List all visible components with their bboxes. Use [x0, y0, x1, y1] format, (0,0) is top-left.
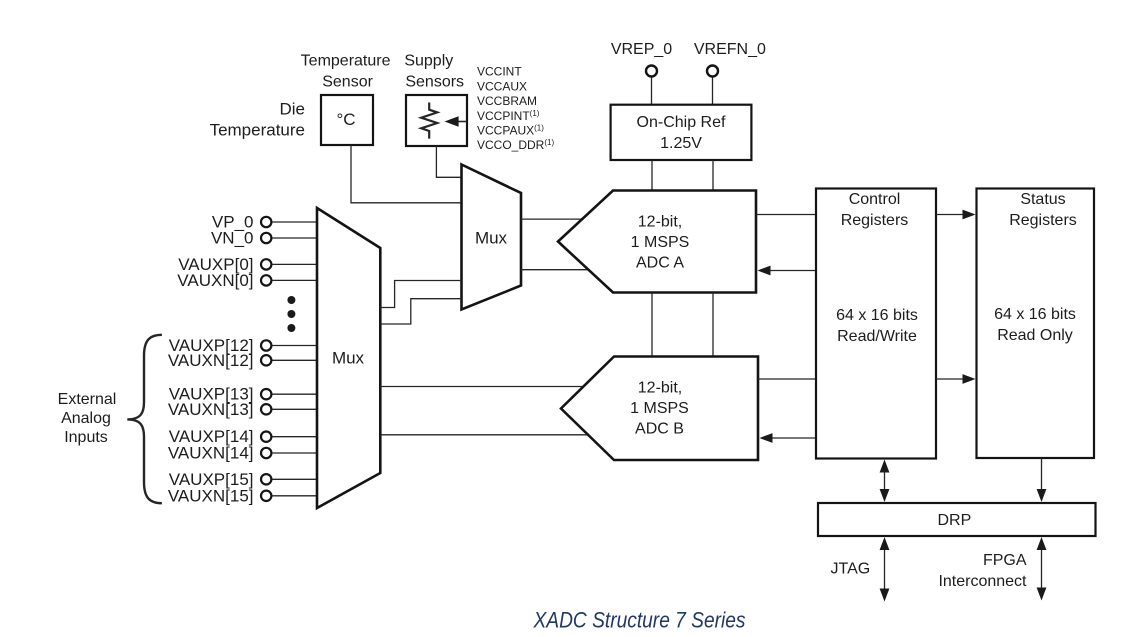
svg-text:64 x 16 bits: 64 x 16 bits — [994, 306, 1076, 323]
svg-text:Status: Status — [1020, 191, 1065, 208]
svg-text:Die: Die — [279, 100, 305, 119]
svg-text:64 x 16 bits: 64 x 16 bits — [836, 307, 918, 324]
input pin VAUXN[14] — [168, 444, 317, 463]
pin VREFN_0 — [694, 41, 766, 76]
svg-text:Temperature: Temperature — [301, 52, 391, 69]
wire mux M2 to ADC A positive — [521, 218, 583, 220]
svg-text:ADC B: ADC B — [635, 421, 684, 438]
svg-text:DRP: DRP — [938, 512, 972, 529]
svg-text:Analog: Analog — [61, 410, 111, 427]
wire on-chip ref to ADC A right — [712, 160, 714, 191]
svg-text:XADC Structure 7 Series: XADC Structure 7 Series — [533, 608, 746, 633]
input pin VN_0 — [211, 229, 317, 248]
label Temperature Sensor — [301, 52, 391, 90]
input pin VAUXP[0] — [178, 255, 317, 274]
svg-text:FPGA: FPGA — [983, 552, 1027, 569]
svg-text:°C: °C — [336, 110, 355, 129]
arrow control registers to ADC B — [760, 433, 817, 443]
mux M2 — [462, 165, 522, 310]
svg-text:External: External — [58, 391, 117, 408]
wire ADC A to ADC B left — [651, 293, 653, 357]
wire temperature sensor to mux M2 — [351, 145, 462, 203]
svg-text:1.25V: 1.25V — [660, 135, 702, 152]
svg-text:Control: Control — [849, 191, 901, 208]
svg-text:VREFN_0: VREFN_0 — [694, 41, 766, 58]
label FPGA Interconnect — [938, 552, 1027, 590]
input pin VAUXP[12] — [169, 336, 317, 355]
ellipsis dots — [287, 296, 295, 332]
svg-text:VCCAUX: VCCAUX — [477, 79, 527, 93]
svg-text:Mux: Mux — [475, 229, 508, 248]
svg-text:VAUXN[12]: VAUXN[12] — [168, 351, 254, 370]
arrow control to status bottom — [936, 374, 976, 384]
svg-text:VCCBRAM: VCCBRAM — [477, 94, 537, 108]
DRP block — [818, 503, 1096, 536]
wire mux M1 to mux M2 channel b — [380, 299, 461, 324]
svg-text:Registers: Registers — [841, 212, 909, 229]
svg-text:Interconnect: Interconnect — [938, 573, 1027, 590]
input pin VAUXN[0] — [177, 271, 317, 290]
label Supply Sensors — [404, 52, 464, 90]
supply rail labels VCCINT..VCCO_DDR — [477, 64, 554, 152]
svg-text:Registers: Registers — [1009, 212, 1077, 229]
arrow into resistor — [445, 116, 467, 126]
bidirectional FPGA interconnect arrow — [1037, 537, 1047, 601]
bidirectional arrow control registers to DRP — [880, 460, 890, 503]
control registers block — [816, 189, 936, 459]
status registers block — [977, 189, 1095, 459]
svg-text:Temperature: Temperature — [210, 121, 305, 140]
ADC B block — [561, 357, 758, 461]
svg-text:Supply: Supply — [404, 52, 453, 69]
arrow control to status top — [936, 210, 976, 220]
svg-text:ADC A: ADC A — [636, 255, 684, 272]
brace external analog inputs — [127, 335, 162, 503]
wire supply sensors to mux M2 — [436, 146, 461, 177]
svg-text:Sensor: Sensor — [322, 73, 373, 90]
input pin VP_0 — [212, 213, 317, 232]
svg-text:VN_0: VN_0 — [211, 229, 254, 248]
svg-text:1 MSPS: 1 MSPS — [630, 400, 689, 417]
arrow status registers to DRP — [1037, 458, 1047, 502]
wire mux M1 to ADC B positive — [380, 386, 585, 388]
svg-text:Inputs: Inputs — [64, 429, 108, 446]
wire ADC A to ADC B right — [712, 293, 714, 357]
pin VREP_0 — [611, 41, 672, 76]
wire mux M2 to ADC A negative — [521, 269, 589, 271]
wire ADC A to control registers — [756, 214, 816, 216]
resistor symbol — [421, 103, 437, 139]
temperature sensor block — [321, 95, 373, 145]
svg-text:Read Only: Read Only — [997, 327, 1073, 344]
ADC A block — [558, 191, 756, 293]
mux M1 — [317, 208, 380, 508]
supply sensors block — [406, 95, 467, 146]
input pin VAUXN[15] — [168, 486, 317, 505]
svg-text:Mux: Mux — [332, 349, 365, 368]
wire mux M1 to ADC B negative — [380, 434, 588, 436]
svg-text:Sensors: Sensors — [405, 73, 464, 90]
wire ADC B to control registers — [758, 378, 816, 380]
svg-text:VREP_0: VREP_0 — [611, 41, 672, 58]
on-chip reference block — [611, 105, 752, 160]
svg-text:VAUXN[0]: VAUXN[0] — [177, 271, 253, 290]
wire on-chip ref to ADC A left — [651, 160, 653, 191]
svg-text:12-bit,: 12-bit, — [638, 214, 682, 231]
input pin VAUXN[13] — [168, 400, 317, 419]
svg-text:VCCO_DDR(1): VCCO_DDR(1) — [477, 138, 554, 152]
wire VREP_0 to on-chip ref — [651, 78, 653, 105]
svg-text:VCCINT: VCCINT — [477, 64, 522, 78]
svg-text:VAUXN[13]: VAUXN[13] — [168, 400, 254, 419]
label Die Temperature — [210, 100, 305, 140]
wire VREFN_0 to on-chip ref — [712, 78, 714, 105]
svg-text:1 MSPS: 1 MSPS — [631, 234, 690, 251]
svg-text:VAUXN[14]: VAUXN[14] — [168, 444, 254, 463]
input pin VAUXP[13] — [169, 385, 317, 404]
svg-text:JTAG: JTAG — [831, 561, 871, 578]
label External Analog Inputs — [58, 391, 117, 446]
arrow control registers to ADC A — [758, 266, 817, 276]
wire mux M1 to mux M2 channel a — [380, 281, 461, 308]
svg-text:On-Chip Ref: On-Chip Ref — [637, 114, 726, 131]
input pin VAUXN[12] — [168, 351, 317, 370]
svg-text:12-bit,: 12-bit, — [638, 379, 682, 396]
svg-text:Read/Write: Read/Write — [837, 328, 917, 345]
svg-text:VAUXN[15]: VAUXN[15] — [168, 486, 254, 505]
input pin VAUXP[14] — [169, 427, 317, 446]
bidirectional JTAG port arrow — [880, 537, 890, 602]
input pin VAUXP[15] — [169, 470, 317, 489]
